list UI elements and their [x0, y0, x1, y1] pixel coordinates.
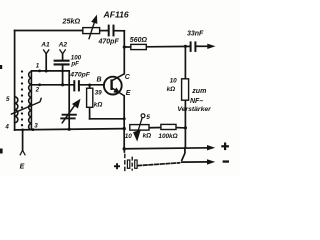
potentiometer 10k wiper arrow	[134, 118, 142, 140]
node tap1 winding dot	[38, 70, 41, 73]
battery cell plate long 2	[131, 157, 133, 171]
wire earth drop	[22, 130, 24, 150]
earth symbol chevron	[20, 150, 25, 155]
wire 470pF top to corner	[115, 30, 125, 32]
wire 39k top stub	[89, 85, 91, 88]
transistor emitter arrowhead	[113, 87, 120, 93]
svg-text:4: 4	[4, 123, 9, 130]
svg-text:E: E	[126, 90, 131, 97]
wire A1 down-lead	[45, 54, 47, 71]
resistor 560 box	[131, 44, 147, 49]
transistor U1 AF116 circle	[104, 77, 122, 95]
svg-text:AF116: AF116	[103, 9, 129, 19]
svg-text:E: E	[20, 164, 25, 171]
wire tap2 horizontal to 470pF	[32, 84, 74, 86]
node base/39k junction	[88, 84, 91, 87]
label plus battery	[114, 165, 120, 167]
output arrow top	[207, 44, 215, 49]
resistor 10k potentiometer box	[130, 125, 149, 131]
svg-text:10: 10	[125, 133, 133, 140]
wire minus lead dashed from battery	[138, 163, 180, 166]
svg-text:B: B	[97, 77, 102, 84]
wire battery stub	[123, 150, 125, 154]
svg-text:3: 3	[34, 123, 38, 130]
wire tap1 horizontal and down to trimmer	[32, 71, 70, 129]
output arrow plus	[207, 145, 215, 150]
trimmer capacitor arrow	[62, 100, 80, 123]
wire 560 resistor to rail node	[146, 45, 190, 47]
node 560/33nF/rail junction	[184, 45, 187, 48]
svg-text:5: 5	[146, 114, 150, 121]
label plus output	[221, 145, 229, 147]
svg-text:470pF: 470pF	[69, 71, 90, 78]
resistor 10k vertical box	[182, 79, 189, 100]
coil primary winding	[15, 97, 18, 123]
node collector/560 junction	[123, 45, 126, 48]
node tap2 winding dot	[38, 83, 41, 86]
resistor 39k box	[87, 88, 93, 107]
wire bottom horizontal (coil bottom rail)	[15, 129, 125, 130]
svg-text:39: 39	[95, 90, 103, 97]
wire left vertical (outer, with primary winding inline)	[14, 31, 16, 131]
junction dots	[21, 45, 187, 151]
svg-text:pF: pF	[70, 61, 79, 68]
resistor 25k potentiometer box	[83, 28, 100, 34]
wire pot to 470pF top	[100, 30, 108, 32]
node tap3 junction	[32, 128, 35, 131]
svg-text:100kΩ: 100kΩ	[158, 133, 177, 140]
battery cell plate short 2	[135, 160, 137, 168]
resistor 25k pot arrow	[89, 17, 97, 40]
ferrite core dots	[21, 70, 23, 126]
svg-text:33nF: 33nF	[187, 30, 204, 37]
wire minus lead solid	[182, 161, 209, 163]
wire top horizontal from top-left corner to 25k pot	[15, 30, 83, 32]
scan speck left edge lower	[0, 149, 3, 154]
scan speck left edge upper	[0, 65, 2, 69]
node trimmer/bottom rail junction	[68, 128, 71, 131]
svg-text:1: 1	[36, 63, 40, 70]
battery cell plate long 1	[124, 154, 126, 172]
wire plus rail	[124, 148, 209, 149]
label minus output	[223, 160, 229, 162]
svg-text:5: 5	[6, 96, 10, 103]
wire right rail vertical upper	[184, 46, 186, 79]
wire 100k to rail	[176, 127, 185, 129]
wire emitter vertical	[123, 96, 125, 149]
capacitor 100pF plates	[54, 61, 70, 65]
resistor 100k box	[161, 124, 176, 129]
svg-text:560Ω: 560Ω	[130, 37, 148, 44]
wire collector vertical	[123, 31, 125, 74]
svg-text:kΩ: kΩ	[143, 133, 152, 140]
trimmer capacitor plates	[60, 115, 77, 119]
node tap1/100pF crossing	[61, 70, 64, 73]
node tap1/A1 junction	[45, 70, 48, 73]
terminal 5 circle	[141, 114, 145, 118]
wire 33nF to output arrow	[197, 45, 210, 47]
wire 39k bottom stub	[89, 107, 91, 119]
wire pot right to 100k	[149, 127, 161, 129]
output arrow minus	[207, 159, 215, 164]
node battery plus junction	[123, 147, 126, 150]
svg-text:kΩ: kΩ	[167, 86, 176, 93]
svg-text:470pF: 470pF	[98, 38, 120, 45]
wire A2 stub to 100pF	[62, 54, 64, 59]
wire 100pF down to tap2	[62, 66, 64, 85]
svg-text:Verstärker: Verstärker	[177, 106, 211, 113]
wire switch blade	[182, 148, 185, 160]
transistor emitter lead	[112, 88, 125, 96]
wire 470pF to base	[80, 84, 104, 86]
svg-text:zum: zum	[191, 88, 206, 95]
coil tuning arrow	[11, 98, 42, 115]
wire 39k bottom return	[90, 118, 125, 120]
wire right rail vertical lower	[184, 100, 186, 148]
svg-text:10: 10	[170, 78, 178, 85]
node tap2/100pF junction	[61, 83, 64, 86]
node earth junction	[21, 129, 24, 132]
node emitter/bottom rail junction	[123, 127, 126, 130]
capacitor 470pF top	[109, 25, 114, 37]
node emitter/39k junction	[123, 117, 126, 120]
capacitor 470pF base coupling	[74, 80, 79, 91]
node 100k/rail junction	[184, 126, 187, 129]
svg-text:kΩ: kΩ	[94, 101, 103, 108]
coil secondary winding	[29, 71, 32, 130]
transistor base bar	[110, 79, 112, 90]
svg-text:25kΩ: 25kΩ	[62, 16, 81, 25]
wire collector node to 560 resistor	[124, 46, 131, 48]
capacitor 33nF	[191, 41, 196, 52]
antenna terminal A2 symbol	[60, 49, 66, 53]
transistor collector lead	[112, 74, 125, 81]
svg-text:NF–: NF–	[190, 98, 203, 105]
svg-text:2: 2	[35, 86, 40, 93]
svg-text:A2: A2	[58, 42, 68, 49]
svg-text:A1: A1	[40, 42, 50, 49]
antenna terminal A1 symbol	[43, 49, 49, 53]
battery cell plate short 1	[127, 160, 129, 168]
